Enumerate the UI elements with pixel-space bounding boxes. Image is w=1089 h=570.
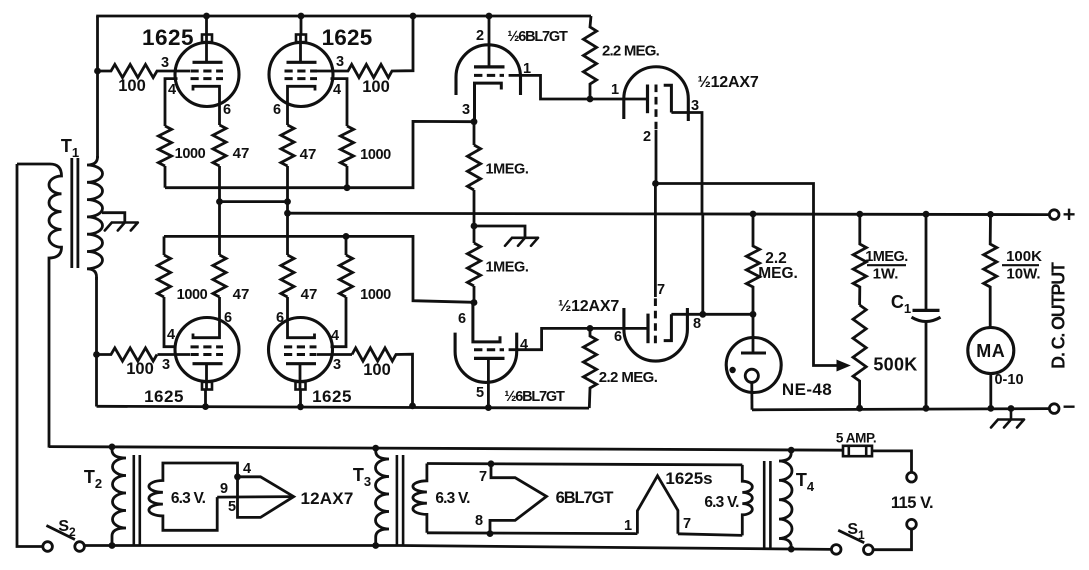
wire R5 to bias rail [164,166,167,188]
tube U4 grid [654,297,657,343]
transformer T1 secondary winding [87,156,103,280]
wire V1 plate cap lead [205,16,208,35]
wire ground branch [474,226,525,238]
resistor R5 1000 [158,126,171,166]
resistor R6 47 [213,125,226,166]
resistor R9 2.2 MEG [583,16,596,99]
node junction R2 / B+ rail [410,13,417,20]
wire R11 to U3 grid node [473,286,476,303]
svg-text:6: 6 [273,102,281,118]
svg-text:1625s: 1625s [665,469,712,488]
lamp NE-48 top electrode [752,314,755,353]
heater 1625s symbol [637,476,678,534]
transformer T2 6.3V winding box [149,463,238,530]
svg-text:6: 6 [276,310,284,326]
node junction R6/interconnect [216,198,223,205]
node junction pin8 / NE-48 wire [699,311,706,318]
node junction V1 plate [203,13,210,20]
node junction V3 plate / minus rail [202,403,209,410]
wire C1 top lead [925,214,928,310]
ground chassis ground at T1 center tap [105,223,138,231]
svg-text:7: 7 [479,469,487,485]
wire R15 to V4 pin4 [331,297,347,347]
svg-text:5: 5 [476,385,484,401]
wire 115V bottom to S1 [873,529,911,550]
resistor R12 1000 (lower) [157,255,170,297]
lamp NE-48 bottom electrode [745,369,758,382]
resistor R20 100K 10W [984,214,997,327]
resistor R10 1 MEG (upper) [467,145,480,190]
wire heater supply bottom rail [84,546,831,550]
wire windings bottom line left [427,531,638,535]
tube U2 cathode [664,85,672,112]
node junction R15 / lower bias rail [343,233,350,240]
svg-text:4: 4 [331,328,339,344]
transformer T2 primary winding [112,447,126,545]
resistor R7 47 [281,125,294,166]
terminal plus output [1049,210,1059,220]
svg-text:1000: 1000 [360,287,391,303]
svg-text:2.2 MEG.: 2.2 MEG. [599,369,658,386]
svg-text:5 AMP.: 5 AMP. [836,431,876,446]
node junction U2 grid / wiper wire [652,180,659,187]
node junction ground tap [471,223,478,230]
svg-text:500K: 500K [873,355,917,375]
capacitor C1 top plate [913,309,940,312]
node junction R16 / plus rail [750,211,757,218]
svg-text:MA: MA [976,341,1005,361]
svg-text:1W.: 1W. [873,266,899,283]
resistor R2 100 [317,16,413,78]
svg-text:0-10: 0-10 [994,372,1023,388]
svg-text:6: 6 [223,102,231,118]
wire minus output rail right section [752,409,1049,410]
svg-text:8: 8 [475,513,483,529]
label R20 fraction bar [1002,264,1039,266]
svg-text:47: 47 [233,145,250,162]
transformer T4 primary winding [779,450,792,549]
node junction 6BL7GT heater pin8 [487,530,494,537]
tube U3 grid [474,348,504,351]
wire R15 top lead [345,236,348,255]
heater 6BL7GT symbol [490,464,547,534]
node junction C1 / plus rail [923,211,930,218]
tube U2 grid [655,85,658,131]
svg-text:NE-48: NE-48 [782,380,832,399]
svg-text:6BL7GT: 6BL7GT [556,489,614,507]
lamp NE-48 neon envelope [726,338,781,393]
svg-text:4: 4 [167,327,175,343]
tube U3 cathode [473,303,500,342]
wire B+ top rail [96,15,591,18]
wire M1 to minus rail [989,374,992,409]
svg-text:3: 3 [336,54,344,70]
tube U2 plate [646,85,649,114]
wire windings top line [427,464,742,465]
wire R10 to ground tap [473,190,476,243]
node junction U1 plate / B+ rail [486,13,493,20]
wire V3 plate cap lead [204,390,207,407]
tube V3 1625 (lower left) [175,318,239,382]
tube U1 grid [474,74,504,77]
node junction V2 plate [298,13,305,20]
tube U1 cathode [475,83,502,122]
terminal minus output [1049,404,1059,414]
svg-text:6.3 V.: 6.3 V. [171,490,206,507]
node junction U3 plate / minus rail [485,404,492,411]
node junction M1 / minus rail [987,405,994,412]
svg-text:100: 100 [126,360,154,378]
svg-text:1: 1 [523,61,531,77]
meter M1 milliammeter [968,328,1014,374]
svg-text:MEG.: MEG. [758,265,798,282]
svg-text:½12AX7: ½12AX7 [558,298,619,315]
svg-text:2.2 MEG.: 2.2 MEG. [602,43,660,60]
svg-text:3: 3 [333,357,341,373]
transformer T1 primary winding [17,164,62,448]
svg-text:½6BL7GT: ½6BL7GT [507,29,568,45]
resistor R1 100 [98,64,191,77]
svg-text:2: 2 [643,129,651,145]
wire T1 secondary top lead [96,16,99,158]
node junction 6BL7GT heater pin7 [488,460,495,467]
wire R7 lower leg [286,166,289,255]
wire V4 plate cap lead [299,390,302,407]
svg-text:1: 1 [611,82,619,98]
node junction R7 / interconnect [284,198,291,205]
node junction U1 grid node [471,118,478,125]
tube V2 1625 (upper right) [269,43,333,107]
tube U2 1/2 12AX7 envelope [624,67,689,121]
node junction T1 secondary / R3 [93,351,100,358]
wire V2 pin4 lead [331,79,348,126]
svg-text:1625: 1625 [144,387,184,406]
wire grid to 500K wiper [656,184,839,366]
svg-text:115 V.: 115 V. [891,494,933,512]
tube U4 cathode [664,314,672,340]
resistor R11 1 MEG (lower) [467,243,480,286]
wire U1 grid pin1 lead [509,75,590,99]
wire U2 cathode pin3 lead [671,113,702,214]
wire upper bias rail [165,121,474,187]
svg-text:8: 8 [693,316,701,332]
node junction T3 primary bottom [372,542,379,549]
wire U4 cathode pin8 lead [671,313,702,316]
transformer T4 6.3V winding right edge [742,465,752,536]
terminal 115V bottom [907,519,917,529]
svg-text:47: 47 [301,286,318,303]
svg-text:100: 100 [362,78,390,96]
svg-text:100: 100 [363,361,391,379]
wire V1 cathode leg pin6 [193,86,220,125]
svg-text:100: 100 [118,77,146,95]
node junction R7 / plus rail [284,210,291,217]
wire U2 grid pin2 lead [655,130,658,184]
wire U1 plate lead pin2 [488,16,491,67]
resistor R14 47 (lower) [281,255,294,297]
wire V3 cathode leg pin6 [193,297,220,338]
wire wiper arrowhead [837,360,850,370]
svg-text:D. C. OUTPUT: D. C. OUTPUT [1049,262,1069,369]
node junction R4 / minus rail [409,403,416,410]
node junction R20 / plus rail [987,211,994,218]
node junction ground / minus rail [1008,405,1015,412]
svg-text:7: 7 [683,516,691,532]
node junction R16 / NE-48 [750,311,757,318]
svg-text:1000: 1000 [175,146,206,162]
resistor R8 1000 [340,126,353,166]
ground chassis ground mid [505,238,538,246]
transformer T3 primary winding [376,448,390,545]
fuse F1 5 AMP [843,446,872,456]
transformer T2 core [133,455,136,546]
svg-text:1MEG.: 1MEG. [865,249,908,265]
tube V4 1625 (lower right) [269,318,333,382]
node junction T1 secondary / R1 [94,68,101,75]
wire R12 top lead [163,236,166,255]
svg-text:½12AX7: ½12AX7 [697,74,758,91]
node junction V4 plate / minus rail [297,403,304,410]
svg-text:1000: 1000 [360,147,391,163]
node junction T4 primary bottom [788,546,795,553]
svg-text:6.3 V.: 6.3 V. [704,494,739,511]
resistor R18 1 MEG 1W [853,214,866,305]
transformer T1 core [70,158,73,268]
wire heater supply top rail [49,447,843,451]
svg-text:1000: 1000 [177,287,208,303]
node junction R19 / minus rail [856,405,863,412]
tube V1 1625 (upper left) [175,43,239,107]
node junction T2 primary top [109,444,116,451]
svg-text:3: 3 [462,102,470,118]
wire U3 plate pin5 lead [487,358,490,407]
wire NE-48 to minus rail [750,382,753,409]
node junction C1 / minus rail [923,405,930,412]
node junction R9 bottom / pin1 net [587,96,594,103]
wire V2 cathode leg pin6 [288,86,316,125]
label R18 fraction bar [867,264,906,266]
terminal 115V top [907,472,917,482]
tube U1 plate [474,65,505,68]
wire V3 pin3 lead [158,353,191,356]
wire lower bias rail [164,236,474,302]
svg-text:1625: 1625 [142,25,194,50]
svg-text:1MEG.: 1MEG. [485,260,528,276]
svg-text:3: 3 [162,357,170,373]
svg-text:5: 5 [228,499,236,515]
svg-text:47: 47 [233,286,250,303]
wire plus output rail [288,213,1050,214]
svg-text:6: 6 [614,329,622,345]
wire interconnect 47s [220,200,288,203]
potentiometer R19 500K [853,305,866,408]
svg-text:6.3 V.: 6.3 V. [435,490,470,507]
wire U1 cathode to R10 [473,122,476,145]
svg-text:−: − [1063,394,1076,419]
tube U4 plate [646,314,649,344]
tube U3 1/2 6BL7GT envelope [455,333,517,383]
ground chassis ground at minus rail [991,409,1024,428]
node junction 12AX7 heater pin4 [234,473,241,480]
wire V4 cathode leg pin6 [288,297,315,338]
wire U3 grid pin4 lead [509,328,590,349]
svg-text:10W.: 10W. [1006,266,1040,283]
wire V4 pin3 lead [317,353,352,356]
wire U2U4 cathodes vertical [701,214,704,315]
resistor R4 100 (lower right) [352,348,413,406]
node junction R8 / bias rail [344,184,351,191]
wire V1 pin4 lead [165,79,178,126]
switch S1 [831,545,841,555]
wire windings bottom line right [678,534,742,536]
node junction T4 primary top [788,447,795,454]
wire R6 lower leg [218,166,221,255]
lamp NE-48 dot [729,367,735,373]
heater 12AX7 symbol [238,477,294,518]
wire T1 center tap [102,213,125,223]
wire U4 pin6 lead [590,327,647,330]
svg-text:6: 6 [458,311,466,327]
node junction R17 top / pin4 net [587,325,594,332]
wire 115V line left vertical [17,164,42,547]
svg-text:1MEG.: 1MEG. [485,162,528,178]
svg-text:100K: 100K [1006,248,1042,265]
wire minus output rail left section [97,406,590,408]
wire T1 secondary bottom lead [95,277,98,407]
wire U2 pin1 lead [590,98,646,101]
transformer T3 core [396,455,399,546]
tube U4 1/2 12AX7 envelope [624,308,688,361]
node junction T3 primary top [372,445,379,452]
wire R12 to V3 pin4 [164,297,177,347]
wire U4 grid pin7 lead [654,184,657,298]
svg-text:1625: 1625 [312,387,352,406]
capacitor C1 bottom plate [912,317,941,321]
svg-text:4: 4 [168,82,176,98]
wire R8 to bias rail [346,166,349,188]
svg-text:4: 4 [243,461,251,477]
node junction U3 grid node [471,299,478,306]
svg-text:12AX7: 12AX7 [301,489,354,508]
resistor R13 47 (lower) [213,255,226,297]
wire V2 plate cap lead [300,16,303,35]
svg-text:2: 2 [476,28,484,44]
tube U3 plate [474,357,505,360]
transformer T3 6.3V winding left edge [413,464,427,533]
resistor R17 2.2 MEG (lower) [583,328,596,408]
svg-text:47: 47 [300,146,317,163]
resistor R3 100 (lower left) [97,348,158,361]
svg-text:4: 4 [333,82,341,98]
svg-text:9: 9 [220,481,228,497]
wire fuse to 115V top terminal [872,451,912,472]
svg-text:+: + [1063,202,1076,227]
transformer T4 core [763,461,766,548]
svg-text:1625: 1625 [322,25,373,50]
svg-text:6: 6 [224,310,232,326]
wire C1 bottom lead [925,322,928,409]
resistor R16 2.2 MEG [746,214,759,314]
wire pin8 node to NE-48 node [703,313,753,316]
svg-text:4: 4 [520,337,528,353]
svg-text:3: 3 [161,55,169,71]
node junction R18 / plus rail [856,211,863,218]
svg-text:3: 3 [691,98,699,114]
resistor R15 1000 (lower) [339,255,352,297]
svg-text:1: 1 [624,518,632,534]
node junction T2 primary bottom [109,542,116,549]
svg-text:½6BL7GT: ½6BL7GT [504,389,565,405]
switch S2 [43,542,53,552]
tube U1 1/2 6BL7GT envelope [456,45,521,95]
svg-text:7: 7 [657,282,665,298]
